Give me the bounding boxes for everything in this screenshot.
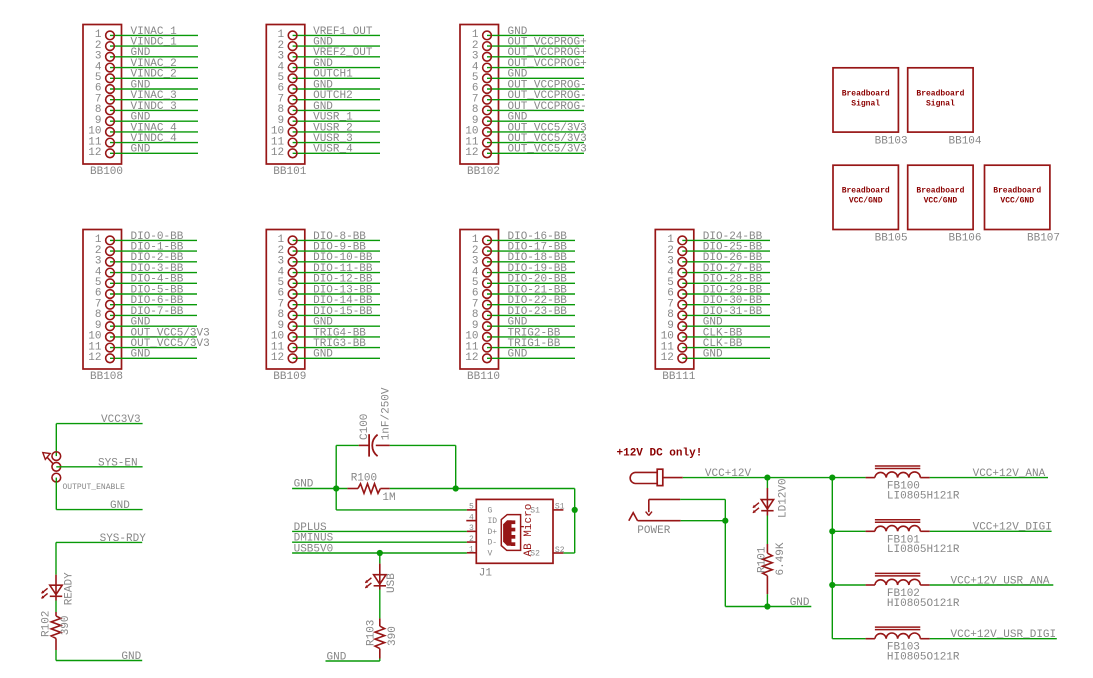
svg-text:6.49K: 6.49K [775,542,787,575]
svg-text:12: 12 [661,352,674,364]
svg-text:1: 1 [469,546,474,555]
svg-text:USB: USB [386,573,398,593]
svg-text:+12V DC only!: +12V DC only! [617,447,703,459]
breadboard box BB104 [908,68,982,148]
junction (LD12V0 top) [764,475,770,481]
svg-text:GND: GND [313,349,333,361]
svg-text:Signal: Signal [926,99,955,108]
svg-text:12: 12 [271,352,284,364]
svg-text:BB110: BB110 [467,371,500,383]
svg-text:S2: S2 [555,546,565,555]
ferrite bead FB101 LI0805H121R [832,520,1052,556]
svg-text:LI0805H121R: LI0805H121R [887,544,960,556]
junction (FB bus top) [829,475,835,481]
svg-text:VCC+12V: VCC+12V [705,468,752,480]
svg-text:3: 3 [469,524,474,533]
svg-text:390: 390 [387,626,399,646]
svg-text:R103: R103 [365,620,377,646]
svg-text:Breadboard: Breadboard [842,89,890,98]
wire LED to R102 [55,601,57,613]
svg-text:BB104: BB104 [949,135,982,147]
switch S (output enable) [43,452,61,482]
resistor R100 1M [347,473,395,505]
svg-text:VCC+12V_USR_ANA: VCC+12V_USR_ANA [951,575,1050,587]
svg-text:BB102: BB102 [467,166,500,178]
svg-text:12: 12 [271,147,284,159]
svg-text:BB108: BB108 [90,371,123,383]
wire pushbutton to VCC [680,499,728,523]
net DPLUS [292,522,467,534]
net GND (switch) [56,478,142,512]
svg-text:390: 390 [60,615,72,635]
net SYS-RDY [56,533,146,575]
svg-text:OUT_VCC5/3V3: OUT_VCC5/3V3 [508,144,587,156]
connector BB101 [266,25,380,179]
svg-text:SYS-EN: SYS-EN [98,457,138,469]
svg-text:R102: R102 [40,611,52,637]
svg-text:Breadboard: Breadboard [916,89,964,98]
svg-text:GND: GND [327,652,347,664]
ferrite bead FB100 LI0805H121R [866,466,1048,502]
net DMINUS [292,533,467,545]
wire R101 to GND [766,594,768,606]
svg-text:VCC3V3: VCC3V3 [101,414,141,426]
svg-text:R101: R101 [756,546,768,573]
wire down [379,553,381,564]
net USB5V0 [292,544,467,556]
svg-text:USB5V0: USB5V0 [294,544,334,556]
net GND (USB LED) [326,652,380,664]
svg-text:Breadboard: Breadboard [916,187,964,196]
svg-text:GND: GND [131,349,151,361]
svg-text:BB106: BB106 [949,233,982,245]
net GND (USB shield) [292,478,575,553]
vertical bus VCC+12V [831,478,833,639]
svg-text:BB111: BB111 [662,371,695,383]
svg-text:R100: R100 [351,473,377,485]
pushbutton POWER [629,499,681,537]
svg-text:Signal: Signal [851,99,880,108]
svg-text:5: 5 [469,503,474,512]
svg-text:C100: C100 [359,414,371,440]
svg-text:4: 4 [469,513,474,522]
junction (R100 left / C100 loop) [333,485,339,491]
connector BB109 [266,230,380,384]
svg-text:BB101: BB101 [273,166,306,178]
svg-text:LD12V0: LD12V0 [778,478,790,518]
connector BB108 [83,230,210,384]
svg-text:D-: D- [488,539,498,548]
svg-text:POWER: POWER [637,525,670,537]
svg-text:S1: S1 [555,503,565,512]
breadboard box BB105 [833,165,908,245]
breadboard box BB106 [908,165,982,245]
wire cap loop [336,445,456,488]
svg-text:VCC/GND: VCC/GND [1000,197,1034,206]
svg-text:GND: GND [790,597,810,609]
svg-text:G: G [488,507,493,516]
ferrite bead FB103 HI0805O121R [832,627,1057,663]
svg-text:GND: GND [121,651,141,663]
svg-text:VCC/GND: VCC/GND [924,197,958,206]
connector BB110 [460,230,575,384]
ferrite bead FB102 HI0805O121R [832,573,1053,609]
svg-text:VCC+12V_USR_DIGI: VCC+12V_USR_DIGI [951,629,1057,641]
svg-text:D+: D+ [488,528,498,537]
wire GND to J1 pin5 [336,489,467,510]
connector J1 USB micro [466,499,564,579]
net VCC+12V [683,468,866,480]
svg-text:GND: GND [703,349,723,361]
svg-text:BB105: BB105 [875,233,908,245]
svg-text:Breadboard: Breadboard [993,187,1041,196]
resistor R101 6.49K [756,542,787,594]
svg-text:BB100: BB100 [90,166,123,178]
wire LED to R101 [766,516,768,545]
LED READY [41,572,75,605]
svg-text:GND: GND [110,500,130,512]
svg-text:HI0805O121R: HI0805O121R [887,652,960,664]
svg-text:VCC+12V_ANA: VCC+12V_ANA [973,468,1046,480]
resistor R102 390 [40,611,72,650]
junction USB5V0 [377,550,383,556]
svg-text:READY: READY [63,572,75,605]
net GND (power) [725,521,811,610]
net SYS-EN [56,457,142,469]
svg-text:12: 12 [465,147,478,159]
capacitor C100 1nF/250V [359,387,393,457]
svg-text:GND: GND [508,349,528,361]
svg-text:OUTPUT_ENABLE: OUTPUT_ENABLE [63,483,126,492]
junction (S1 node) [572,507,578,513]
junction (R100 right / C100 loop) [453,485,459,491]
svg-text:1M: 1M [382,492,395,504]
svg-text:12: 12 [465,352,478,364]
svg-text:HI0805O121R: HI0805O121R [887,598,960,610]
svg-text:12: 12 [88,147,101,159]
connector BB102 [460,25,587,179]
wire LED to R103 [379,590,381,619]
svg-text:BB109: BB109 [273,371,306,383]
LED LD12V0 [753,478,790,518]
junction (FB102 tap) [829,582,835,588]
breadboard box BB103 [833,68,908,148]
svg-text:J1: J1 [479,568,493,580]
svg-text:VCC+12V_DIGI: VCC+12V_DIGI [973,522,1052,534]
svg-text:LI0805H121R: LI0805H121R [887,490,960,502]
resistor R103 390 [365,618,399,658]
svg-text:GND: GND [131,144,151,156]
net GND (READY) [56,650,142,663]
svg-text:VUSR_4: VUSR_4 [313,144,353,156]
svg-text:BB103: BB103 [875,135,908,147]
svg-text:BB107: BB107 [1027,233,1060,245]
svg-text:AB Micro: AB Micro [523,504,535,557]
power jack X [630,469,683,485]
connector BB100 [83,25,198,179]
svg-text:ID: ID [488,517,498,526]
net VCC3V3 [56,414,142,456]
connector BB111 [655,230,770,384]
junction (FB101 tap) [829,528,835,534]
LED USB [365,564,398,593]
svg-text:12: 12 [88,352,101,364]
svg-text:VCC/GND: VCC/GND [849,197,883,206]
svg-text:Breadboard: Breadboard [842,187,890,196]
svg-text:V: V [488,549,493,558]
svg-text:SYS-RDY: SYS-RDY [100,533,147,545]
breadboard box BB107 [985,165,1061,245]
svg-text:1nF/250V: 1nF/250V [380,387,392,440]
svg-text:2: 2 [469,535,474,544]
